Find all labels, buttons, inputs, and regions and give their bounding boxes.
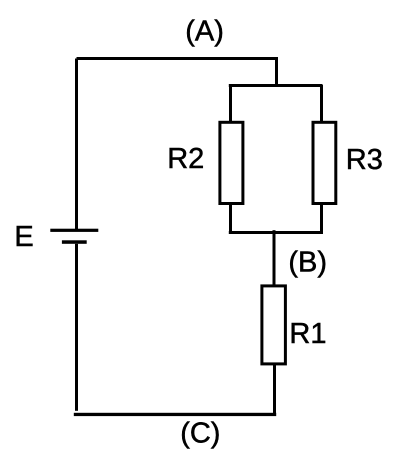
- wire junction vertical from node A down to parallel rail: [275, 59, 278, 88]
- wire left branch lower: [229, 204, 232, 234]
- svg-text:(B): (B): [288, 247, 327, 279]
- svg-text:(A): (A): [185, 16, 224, 48]
- svg-text:R3: R3: [346, 144, 383, 176]
- resistor R1: [262, 286, 286, 364]
- svg-text:R2: R2: [167, 143, 204, 175]
- wire from R1 bottom to bottom rail: [273, 365, 276, 416]
- wire right branch upper: [320, 85, 323, 122]
- wire top horizontal A: [77, 57, 279, 60]
- battery E positive plate: [50, 229, 98, 232]
- wire parallel top rail: [229, 84, 323, 87]
- wire right branch lower: [320, 204, 323, 234]
- wire left vertical from battery negative down: [75, 244, 78, 411]
- wire left vertical from battery positive to top: [75, 59, 78, 231]
- svg-text:R1: R1: [289, 318, 326, 350]
- resistor R3: [313, 122, 336, 203]
- wire bottom horizontal C: [74, 413, 276, 416]
- resistor R2: [220, 122, 243, 203]
- svg-text:(C): (C): [180, 418, 220, 450]
- svg-text:E: E: [14, 221, 33, 253]
- wire node B vertical from rail to R1: [273, 230, 276, 285]
- wire parallel bottom rail: [229, 231, 323, 234]
- battery E negative plate: [62, 240, 87, 244]
- wire left branch upper: [229, 85, 232, 122]
